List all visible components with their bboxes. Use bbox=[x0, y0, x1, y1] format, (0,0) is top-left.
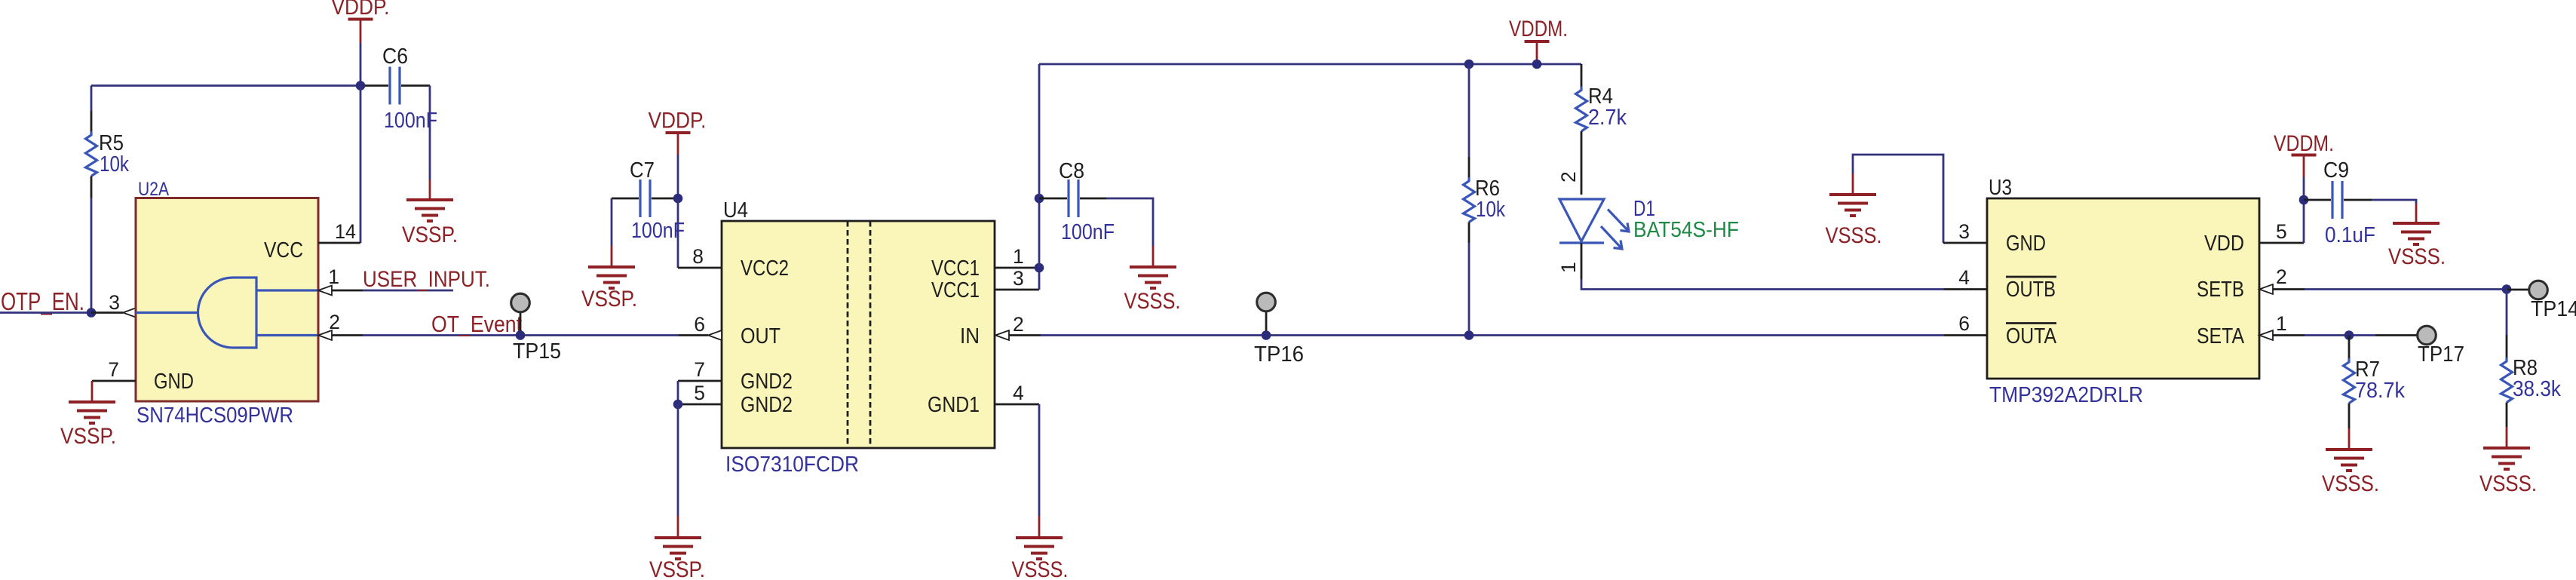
ground VSSS (C8) bbox=[1124, 246, 1181, 314]
node junction C8 bbox=[1035, 194, 1044, 204]
node junction VDDP / C7 / pin8 bbox=[673, 194, 683, 204]
ground VSSP (C6) bbox=[402, 180, 458, 247]
svg-text:C9: C9 bbox=[2323, 158, 2349, 183]
svg-text:14: 14 bbox=[335, 220, 356, 243]
resistor R8 bbox=[2501, 290, 2513, 428]
node junction GND2 bbox=[673, 400, 683, 410]
svg-text:1: 1 bbox=[2276, 312, 2287, 335]
diode D1 bbox=[1559, 199, 1629, 249]
svg-text:GND: GND bbox=[154, 370, 194, 394]
svg-text:C8: C8 bbox=[1059, 159, 1084, 183]
svg-text:VCC1: VCC1 bbox=[931, 278, 980, 302]
svg-text:6: 6 bbox=[694, 313, 705, 336]
isolation barrier dashed line 1 bbox=[847, 221, 849, 448]
capacitor C8 bbox=[1039, 180, 1106, 217]
wire VCC1 node up to C8 node bbox=[1038, 198, 1041, 268]
node junction VDDM bbox=[1532, 60, 1542, 69]
svg-text:VSSS.: VSSS. bbox=[2388, 244, 2446, 269]
op-amp U4 body (ISO7310FCDR) bbox=[722, 221, 995, 448]
svg-text:GND: GND bbox=[2006, 232, 2046, 256]
op-amp U2A body (AND gate box) bbox=[136, 198, 318, 402]
pin 2 arrow (U4 IN) bbox=[995, 330, 1009, 340]
power symbol VDDP (left) bbox=[332, 0, 390, 43]
power symbol VDDM (top rail) bbox=[1509, 17, 1568, 64]
svg-text:VSSS.: VSSS. bbox=[2479, 471, 2537, 496]
pin 1 line (U4 VCC1) bbox=[995, 267, 1039, 269]
node junction OTP_EN / R5 / pin3 bbox=[87, 308, 97, 318]
pin 5 line (U3 VDD) bbox=[2259, 242, 2304, 244]
svg-text:SETB: SETB bbox=[2197, 278, 2244, 302]
svg-text:VSSP.: VSSP. bbox=[649, 557, 705, 580]
svg-text:VSSP.: VSSP. bbox=[581, 287, 637, 311]
svg-text:USER_INPUT.: USER_INPUT. bbox=[363, 267, 490, 292]
pin 6 line bbox=[679, 334, 708, 336]
svg-text:VSSS.: VSSS. bbox=[1012, 557, 1069, 580]
pin 7 line (U2A GND) bbox=[92, 380, 136, 382]
wire GND1 to ground bbox=[1038, 404, 1041, 516]
svg-text:VSSS.: VSSS. bbox=[1826, 223, 1882, 248]
wire VDDP stub to top rail bbox=[360, 43, 362, 86]
node junction R6 top bbox=[1464, 60, 1474, 69]
wire gate output bbox=[136, 311, 198, 314]
resistor R7 bbox=[2344, 336, 2355, 429]
svg-text:2: 2 bbox=[1013, 313, 1024, 336]
test point TP15 bbox=[511, 293, 530, 335]
svg-text:VSSS.: VSSS. bbox=[1124, 289, 1181, 314]
test point TP14 bbox=[2507, 281, 2547, 299]
node junction VCC1 bbox=[1035, 263, 1044, 273]
svg-text:OT_Event: OT_Event bbox=[431, 311, 522, 337]
svg-text:OTP_EN.: OTP_EN. bbox=[1, 287, 84, 315]
wire VDD to C9 node bbox=[2303, 200, 2305, 243]
pin 14 line bbox=[318, 242, 360, 244]
wire gate input 1 bbox=[256, 289, 318, 291]
svg-text:1: 1 bbox=[1557, 262, 1580, 273]
wire C9 to ground bbox=[2372, 200, 2416, 204]
wire pin7 to pin5 bbox=[677, 381, 679, 404]
svg-text:U2A: U2A bbox=[138, 179, 169, 200]
wire VDDM stub to C9 node bbox=[2303, 177, 2305, 200]
svg-text:C6: C6 bbox=[382, 44, 408, 69]
ground VSSS (U4 GND1) bbox=[1012, 516, 1069, 580]
node junction SETA / R7 bbox=[2344, 330, 2354, 340]
wire SETB net bbox=[2305, 288, 2507, 290]
node junction TP16 bbox=[1262, 330, 1271, 340]
wire D1 to U3 OUTB bbox=[1581, 279, 1944, 290]
resistor R4 bbox=[1576, 64, 1587, 195]
wire GND2 to ground bbox=[677, 404, 679, 516]
power symbol VDDM (C9) bbox=[2274, 131, 2334, 177]
wire VDDP stub to C7 node bbox=[677, 155, 679, 198]
svg-text:100nF: 100nF bbox=[631, 219, 685, 243]
wire top rail (VCC1 to VDDM / R4) bbox=[1039, 63, 1581, 66]
svg-text:2: 2 bbox=[1557, 171, 1580, 183]
wire junction to pin 3 bbox=[91, 311, 123, 314]
svg-text:0.1uF: 0.1uF bbox=[2325, 223, 2375, 247]
svg-text:TMP392A2DRLR: TMP392A2DRLR bbox=[1989, 383, 2143, 407]
svg-text:OUTA: OUTA bbox=[2006, 324, 2057, 348]
wire C6 node to pin 14 drop bbox=[360, 86, 362, 244]
ground VSSS (R7) bbox=[2322, 428, 2379, 496]
svg-text:VDDM.: VDDM. bbox=[1509, 17, 1568, 41]
resistor R6 bbox=[1464, 64, 1475, 336]
svg-text:6: 6 bbox=[1958, 312, 1970, 335]
svg-text:VDDM.: VDDM. bbox=[2274, 131, 2334, 156]
pin 4 line (U3 OUTB) bbox=[1944, 288, 1987, 290]
svg-text:VCC2: VCC2 bbox=[741, 256, 789, 281]
svg-text:4: 4 bbox=[1958, 266, 1970, 289]
node junction at VDDP / C6 bbox=[356, 81, 366, 91]
node junction R6 bottom bbox=[1464, 330, 1474, 340]
capacitor C6 bbox=[365, 67, 430, 105]
svg-text:VDD: VDD bbox=[2204, 232, 2244, 256]
wire SETA net bbox=[2305, 334, 2375, 336]
pin 2 line (U4) bbox=[1009, 334, 1041, 336]
wire OT_Event net (U2A pin2 to U4 OUT) bbox=[363, 334, 679, 336]
wire pin3 to pin1 node bbox=[1038, 268, 1041, 290]
svg-text:2: 2 bbox=[329, 311, 340, 333]
svg-text:38.3k: 38.3k bbox=[2513, 377, 2561, 401]
wire ground to U3 pin 3 bbox=[1853, 155, 1943, 243]
svg-text:3: 3 bbox=[109, 291, 120, 314]
wire C7 node to pin 8 bbox=[677, 198, 679, 268]
ground VSSS (U3 GND) bbox=[1826, 173, 1882, 248]
wire IN net (U4 pin2 to U3 OUTA) bbox=[1041, 334, 1944, 336]
wire C8 to ground bbox=[1106, 198, 1153, 246]
wire OTP_EN net bbox=[0, 311, 91, 314]
svg-text:VCC1: VCC1 bbox=[931, 256, 980, 281]
svg-text:GND2: GND2 bbox=[741, 370, 793, 394]
op-amp U3 body (TMP392A2DRLR) bbox=[1987, 198, 2259, 379]
svg-text:TP16: TP16 bbox=[1254, 342, 1304, 367]
node junction VDDM / C9 / VDD bbox=[2299, 195, 2309, 205]
wire top-left horizontal rail (R5 to C6 node) bbox=[91, 84, 360, 87]
svg-text:GND2: GND2 bbox=[741, 393, 793, 417]
pin 4 line (U4 GND1) bbox=[995, 404, 1039, 406]
svg-text:SETA: SETA bbox=[2197, 324, 2245, 348]
svg-text:2: 2 bbox=[2276, 265, 2287, 288]
pin 6 arrow (U4 OUT) bbox=[708, 330, 722, 340]
svg-text:C7: C7 bbox=[630, 158, 655, 183]
svg-text:SN74HCS09PWR: SN74HCS09PWR bbox=[136, 404, 293, 428]
pin 1 arrow (U2A) bbox=[318, 286, 332, 296]
ground VSSS (C9) bbox=[2388, 204, 2446, 269]
svg-text:VDDP.: VDDP. bbox=[332, 0, 390, 20]
svg-text:IN: IN bbox=[960, 324, 980, 348]
test point TP17 bbox=[2375, 326, 2436, 345]
pin 5 line (U4) bbox=[678, 404, 722, 406]
svg-text:7: 7 bbox=[108, 358, 119, 381]
isolation barrier dashed line 2 bbox=[869, 221, 872, 448]
ground VSSP (C7) bbox=[581, 246, 637, 311]
svg-text:TP17: TP17 bbox=[2418, 342, 2464, 367]
svg-text:2.7k: 2.7k bbox=[1588, 106, 1627, 130]
svg-text:3: 3 bbox=[1958, 220, 1970, 243]
node junction SETB / R8 / TP14 bbox=[2502, 284, 2512, 294]
svg-text:U4: U4 bbox=[723, 198, 748, 222]
pin 3 arrow (U2A output) bbox=[123, 308, 136, 318]
wire C6 to ground bbox=[429, 86, 431, 180]
capacitor C7 bbox=[612, 180, 678, 217]
svg-text:4: 4 bbox=[1013, 382, 1024, 404]
svg-text:7: 7 bbox=[694, 358, 705, 381]
node junction TP15 / OT_Event bbox=[516, 330, 526, 340]
svg-text:3: 3 bbox=[1013, 267, 1024, 290]
test point TP16 bbox=[1257, 293, 1276, 335]
svg-text:BAT54S-HF: BAT54S-HF bbox=[1633, 218, 1739, 242]
wire C8 node to top rail bbox=[1038, 64, 1041, 198]
svg-text:78.7k: 78.7k bbox=[2355, 379, 2405, 403]
ground VSSP (U4 GND2) bbox=[649, 516, 705, 580]
pin 1 arrow (U3 SETA) bbox=[2259, 330, 2273, 340]
pin 7 line (U4) bbox=[678, 380, 722, 382]
svg-text:TP15: TP15 bbox=[513, 339, 561, 364]
pin 1 line bbox=[332, 290, 363, 292]
svg-text:OUTB: OUTB bbox=[2006, 278, 2056, 302]
svg-text:8: 8 bbox=[692, 245, 704, 268]
svg-text:1: 1 bbox=[1013, 245, 1024, 268]
capacitor C9 bbox=[2304, 181, 2372, 219]
svg-text:TP14: TP14 bbox=[2531, 297, 2576, 321]
pin name OUTB bbox=[2006, 277, 2056, 302]
svg-text:GND1: GND1 bbox=[928, 393, 980, 417]
power symbol VDDP (C7) bbox=[649, 109, 707, 155]
wire gate input 2 bbox=[256, 334, 318, 336]
pin 2 arrow (U2A) bbox=[318, 330, 332, 340]
svg-text:100nF: 100nF bbox=[1061, 220, 1115, 244]
AND gate symbol inside U2A bbox=[198, 278, 257, 348]
svg-text:VSSP.: VSSP. bbox=[60, 424, 116, 449]
ground VSSS (R8) bbox=[2479, 427, 2537, 496]
svg-text:U3: U3 bbox=[1989, 176, 2012, 200]
pin 2 arrow (U3 SETB) bbox=[2259, 284, 2273, 294]
pin 2 line (U3) bbox=[2273, 288, 2305, 290]
svg-text:VDDP.: VDDP. bbox=[649, 109, 707, 133]
svg-text:VCC: VCC bbox=[264, 238, 303, 262]
svg-text:10k: 10k bbox=[100, 152, 129, 176]
wire USER_INPUT net bbox=[363, 290, 453, 292]
svg-text:5: 5 bbox=[2276, 220, 2287, 243]
svg-text:OUT: OUT bbox=[741, 324, 780, 348]
resistor R5 bbox=[86, 86, 97, 313]
svg-text:5: 5 bbox=[694, 382, 705, 404]
svg-text:ISO7310FCDR: ISO7310FCDR bbox=[725, 453, 859, 477]
svg-text:VSSP.: VSSP. bbox=[402, 222, 458, 247]
svg-text:1: 1 bbox=[328, 265, 339, 288]
pin 8 line bbox=[678, 267, 722, 269]
ground VSSP (U2A) bbox=[60, 381, 116, 449]
pin 6 line (U3 OUTA) bbox=[1944, 334, 1987, 336]
wire C7 to ground bbox=[611, 198, 613, 246]
pin 1 line (U3) bbox=[2273, 334, 2305, 336]
pin 3 line (U4) bbox=[995, 289, 1039, 291]
wire D1 cathode down bbox=[1581, 243, 1583, 279]
svg-text:VSSS.: VSSS. bbox=[2322, 471, 2379, 496]
pin 2 line bbox=[332, 334, 363, 336]
pin name OUTA bbox=[2006, 324, 2057, 349]
svg-text:10k: 10k bbox=[1476, 198, 1505, 222]
